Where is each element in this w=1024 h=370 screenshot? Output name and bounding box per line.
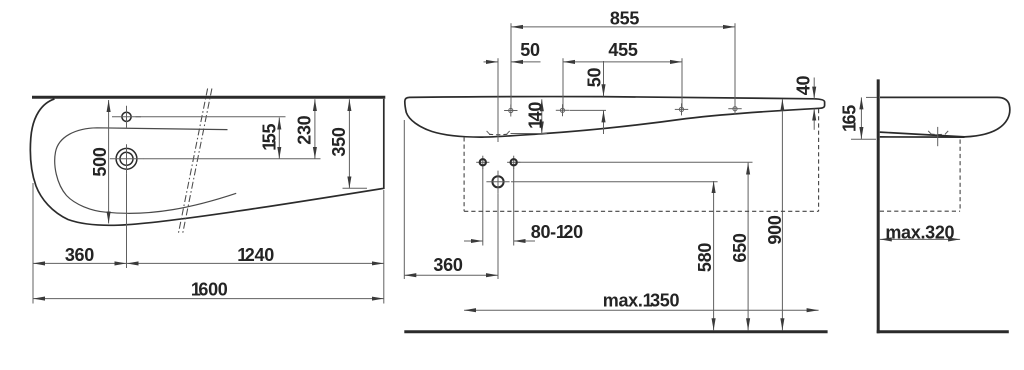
ext line drain level bbox=[511, 181, 718, 183]
svg-text:40: 40 bbox=[794, 76, 814, 96]
dim 360 middle bbox=[404, 274, 498, 276]
ext tick at 350 bottom bbox=[343, 187, 368, 189]
dim 650 bbox=[747, 163, 749, 331]
basin outline bbox=[405, 97, 825, 138]
drain center tick bbox=[937, 127, 939, 146]
dim 500 bbox=[108, 100, 110, 224]
dim 855 bbox=[511, 26, 735, 28]
tap hole 4 crosshair bbox=[728, 103, 741, 115]
svg-text:50: 50 bbox=[520, 40, 540, 60]
drain crosshair bbox=[110, 158, 143, 160]
dim 1600 bbox=[33, 298, 384, 300]
svg-text:360: 360 bbox=[65, 245, 94, 265]
dashes right view bbox=[959, 140, 961, 212]
svg-text:500: 500 bbox=[90, 147, 110, 176]
dim 1240 bbox=[127, 262, 384, 264]
svg-text:80-120: 80-120 bbox=[531, 222, 583, 242]
dim 40 bbox=[813, 78, 815, 99]
tap hole 3 crosshair bbox=[675, 103, 688, 115]
basin profile top bbox=[880, 97, 1010, 136]
basin inner bowl bbox=[55, 128, 236, 214]
dim 580 bbox=[713, 181, 715, 330]
svg-text:580: 580 bbox=[695, 243, 715, 272]
dim 350 bbox=[348, 99, 350, 188]
dim 50 top (arrows outside) bbox=[484, 61, 499, 63]
svg-text:max.320: max.320 bbox=[885, 222, 954, 242]
svg-text:360: 360 bbox=[433, 255, 462, 275]
svg-text:140: 140 bbox=[525, 102, 545, 129]
basin sliver top line bbox=[880, 132, 965, 137]
svg-text:1600: 1600 bbox=[191, 280, 228, 300]
dim 50 vertical bbox=[603, 61, 605, 96]
drain dashed arc right view bbox=[931, 133, 946, 135]
overflow dashed arc bbox=[489, 133, 507, 135]
ext verticals top bbox=[510, 23, 512, 110]
break line 2 (dash-dot diagonal) bbox=[183, 89, 212, 234]
drain circle middle view bbox=[492, 176, 503, 187]
dim 140 bbox=[541, 99, 543, 133]
dim 360 left bbox=[33, 262, 127, 264]
svg-text:1240: 1240 bbox=[237, 245, 274, 265]
floor line middle bbox=[404, 330, 827, 333]
svg-text:350: 350 bbox=[329, 127, 349, 156]
fixing hole right bbox=[507, 161, 520, 163]
svg-text:455: 455 bbox=[608, 40, 637, 60]
svg-text:max.1350: max.1350 bbox=[603, 290, 680, 310]
dim 80-120 bbox=[464, 240, 483, 242]
svg-text:230: 230 bbox=[295, 115, 315, 144]
svg-text:165: 165 bbox=[840, 105, 860, 132]
dashed hidden rect bbox=[463, 137, 465, 211]
faucet hole circle bbox=[122, 112, 131, 121]
tap hole 1 crosshair bbox=[504, 105, 517, 117]
dim max.1350 bbox=[464, 309, 818, 311]
faucet crosshair bbox=[112, 116, 141, 118]
svg-text:155: 155 bbox=[260, 124, 280, 151]
basin outer outline bbox=[30, 99, 383, 225]
svg-text:855: 855 bbox=[610, 9, 639, 29]
break line 1 (dash-dot diagonal) bbox=[178, 89, 207, 234]
center ext line below drain bbox=[126, 173, 128, 268]
drain inner circle bbox=[120, 152, 133, 165]
drain outer circle bbox=[116, 148, 137, 169]
ext line holes level bbox=[518, 161, 753, 163]
dim 230 bbox=[314, 99, 316, 159]
ext line drain level bbox=[143, 158, 321, 160]
dim 900 bbox=[781, 99, 783, 330]
tap hole 2 crosshair bbox=[556, 104, 569, 116]
basin sliver bottom line bbox=[880, 136, 965, 138]
floor thick bbox=[877, 330, 1009, 333]
svg-text:650: 650 bbox=[730, 233, 750, 262]
dim 155 bbox=[278, 118, 280, 159]
svg-text:50: 50 bbox=[585, 68, 605, 88]
ext line faucet level bbox=[136, 116, 286, 118]
wall vertical thick bbox=[877, 79, 880, 333]
wall line (thick) bbox=[32, 96, 385, 99]
dim 455 bbox=[563, 61, 682, 63]
dim 165 bbox=[860, 97, 862, 139]
svg-text:900: 900 bbox=[765, 215, 785, 244]
left ext line bbox=[32, 183, 34, 304]
ext verticals below bbox=[482, 168, 484, 246]
right ext line bbox=[383, 190, 385, 304]
drain crosshair bbox=[486, 181, 509, 183]
dim max.320 bbox=[880, 238, 960, 240]
fixing hole left bbox=[476, 161, 489, 163]
